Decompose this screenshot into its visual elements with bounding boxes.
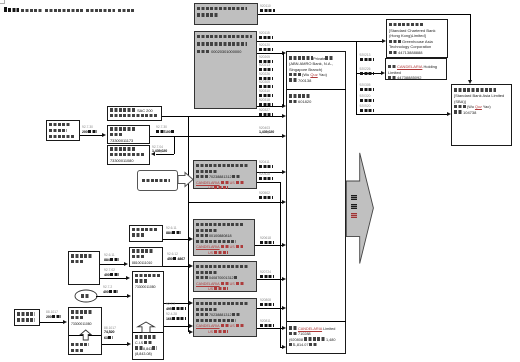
label to J — [152, 146, 163, 149]
label M transfer — [260, 237, 271, 240]
wire U to S — [102, 343, 127, 346]
wire R to N — [163, 265, 189, 268]
label 8.84M — [166, 227, 177, 230]
bracket line — [282, 53, 285, 106]
up arrow in U — [80, 330, 92, 340]
label I transfer — [259, 127, 270, 130]
wire P to S — [100, 277, 126, 280]
label transfer 920120 — [259, 44, 270, 47]
wire H to F — [162, 115, 282, 118]
wire S to O a — [164, 302, 189, 305]
callout arrow — [177, 170, 195, 190]
labels U interest — [104, 327, 116, 330]
divider S — [133, 331, 163, 334]
divider F1 — [287, 88, 346, 91]
ellipse: cash — [74, 289, 98, 303]
wire B to column x356 — [257, 40, 356, 43]
box J: coop bank account (wife) — [107, 145, 150, 165]
box O: SME bank account 2 — [193, 298, 257, 337]
box N: Huanan branch account — [193, 261, 257, 292]
wire K to trunk right — [257, 181, 280, 184]
label 4M — [104, 269, 115, 272]
box S: coop bank tall account — [132, 271, 164, 360]
label transfer 920115 — [259, 32, 270, 35]
wire B to F no.1 — [257, 52, 282, 55]
trunk line left — [187, 116, 190, 332]
label O transfer b — [260, 320, 271, 323]
wire G to I — [80, 134, 102, 137]
wire trunk to F mid — [188, 201, 282, 204]
label 4.5M — [167, 253, 178, 256]
wire M to F — [255, 244, 282, 247]
box B: bank account (foreign currency) — [194, 31, 257, 109]
label 8.84M b — [104, 254, 115, 257]
label cash 4M — [103, 286, 112, 289]
label O transfer a — [260, 299, 271, 302]
label transfer 920205 — [259, 56, 270, 59]
box P: land sale proceeds — [68, 251, 100, 285]
wire B to F no.2 — [257, 105, 282, 108]
box C: Standard Chartered HK — [386, 19, 448, 58]
divider F2 — [287, 320, 346, 323]
label trunk transfer — [259, 192, 270, 195]
wire cash to S — [96, 295, 127, 298]
wire K to F — [257, 171, 282, 174]
label 2M b — [46, 311, 58, 314]
label transfer 920305 — [259, 81, 270, 84]
label cash 1M — [156, 126, 167, 129]
divider U — [69, 334, 101, 337]
wire Q to M — [163, 238, 189, 241]
box G: relatives source — [46, 120, 80, 141]
wire I to F — [150, 135, 282, 138]
label column2 920320 — [360, 95, 371, 98]
box M: Huanan bank company account — [193, 219, 255, 256]
box T: retirement payment — [14, 309, 40, 326]
big arrow text — [351, 195, 357, 201]
wire S to O b — [164, 325, 189, 328]
labels S to O — [166, 303, 175, 306]
wire column to C D E — [355, 41, 358, 115]
wire O to F b — [257, 327, 282, 330]
label K transfer a — [259, 161, 270, 164]
box K: SME bank account — [193, 160, 257, 189]
corner mark — [0, 0, 5, 4]
box Q: coop bank — [129, 225, 163, 242]
label N transfer — [260, 271, 271, 274]
label A transfer — [260, 5, 271, 8]
box R: bank account — [129, 247, 163, 267]
label transfer 920310 — [259, 90, 270, 93]
wire N to F — [257, 278, 282, 281]
branch down to J — [173, 136, 176, 154]
trunk line right — [279, 182, 282, 347]
trunk bottom turn — [280, 346, 282, 349]
label transfer 920213 — [259, 64, 270, 67]
wire O to F a — [257, 307, 282, 310]
label column2 920226 — [360, 68, 371, 71]
title — [8, 8, 135, 14]
label K transfer b — [259, 173, 270, 176]
box A: bank account (company) — [194, 3, 258, 25]
box E: Standard Bank Asia — [451, 84, 512, 146]
box F: Singapore private bank account — [286, 51, 346, 354]
label 2M — [82, 126, 93, 129]
label column2 920520 — [360, 105, 371, 108]
label H transfer — [259, 109, 270, 112]
label column2 920305 — [360, 84, 371, 87]
wire A to E (top route) — [258, 13, 470, 16]
wire P to R — [100, 263, 124, 266]
box D: Candelaria Holding — [385, 58, 447, 80]
label transfer 920318 — [259, 99, 270, 102]
wire T to U — [40, 321, 63, 324]
big arrow: re-remit — [345, 152, 375, 265]
label column2 920213 — [360, 54, 371, 57]
box I: coop bank account — [107, 125, 150, 144]
callout: transferred into accounts — [137, 170, 178, 191]
box U: coop account with interest — [68, 307, 102, 355]
up arrow in S — [137, 322, 155, 333]
label transfer 920226 — [259, 73, 270, 76]
box H: offshore fund returned — [107, 106, 162, 121]
